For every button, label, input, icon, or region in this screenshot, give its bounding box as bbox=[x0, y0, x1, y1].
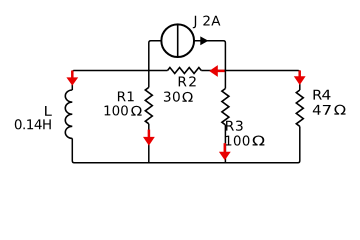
wire R1 branch top lead bbox=[148, 70, 150, 88]
label L value 0.14H bbox=[15, 119, 51, 129]
inductor L coil bbox=[65, 90, 72, 138]
label L bbox=[45, 106, 52, 116]
wire top rail left segment + left branch top lead bbox=[72, 71, 167, 91]
label R3 bbox=[226, 121, 243, 131]
current arrow R4 branch (red, down) bbox=[294, 70, 306, 85]
label J 2A bbox=[193, 16, 221, 29]
label R2 value 30 ohm bbox=[164, 91, 180, 101]
wire top rail right segment + R4 top lead bbox=[201, 71, 299, 91]
wire bottom rail + left and right risers bbox=[72, 126, 299, 162]
resistor R4 zigzag bbox=[296, 90, 303, 126]
resistor R2 zigzag (horizontal) bbox=[168, 68, 202, 74]
label R3 value 100 ohm bbox=[226, 135, 250, 145]
current source black arrowhead bbox=[200, 36, 208, 45]
current arrow left branch (red, down) bbox=[66, 71, 78, 86]
wire R3 branch bottom lead bbox=[224, 125, 226, 163]
label R1 bbox=[118, 91, 134, 101]
label R4 bbox=[314, 90, 322, 100]
wire R3 branch top lead bbox=[224, 70, 226, 89]
current arrow R3 branch (red, down) bbox=[219, 143, 231, 160]
label R4 value 47 ohm bbox=[313, 105, 321, 115]
label R1 value 100 ohm bbox=[105, 105, 128, 115]
current source output stub wire bbox=[194, 41, 225, 71]
wire R1 branch bottom lead bbox=[148, 124, 150, 164]
resistor R1 zigzag bbox=[145, 87, 152, 123]
current arrow R2 (red, left) bbox=[209, 65, 225, 77]
current source J circle bbox=[161, 24, 194, 57]
current source J vertical bar bbox=[177, 24, 179, 57]
wire current source left loop bbox=[149, 41, 162, 71]
resistor R3 zigzag bbox=[222, 89, 229, 125]
current arrow R1 branch (red, down) bbox=[143, 130, 155, 146]
label R2 bbox=[179, 76, 196, 86]
